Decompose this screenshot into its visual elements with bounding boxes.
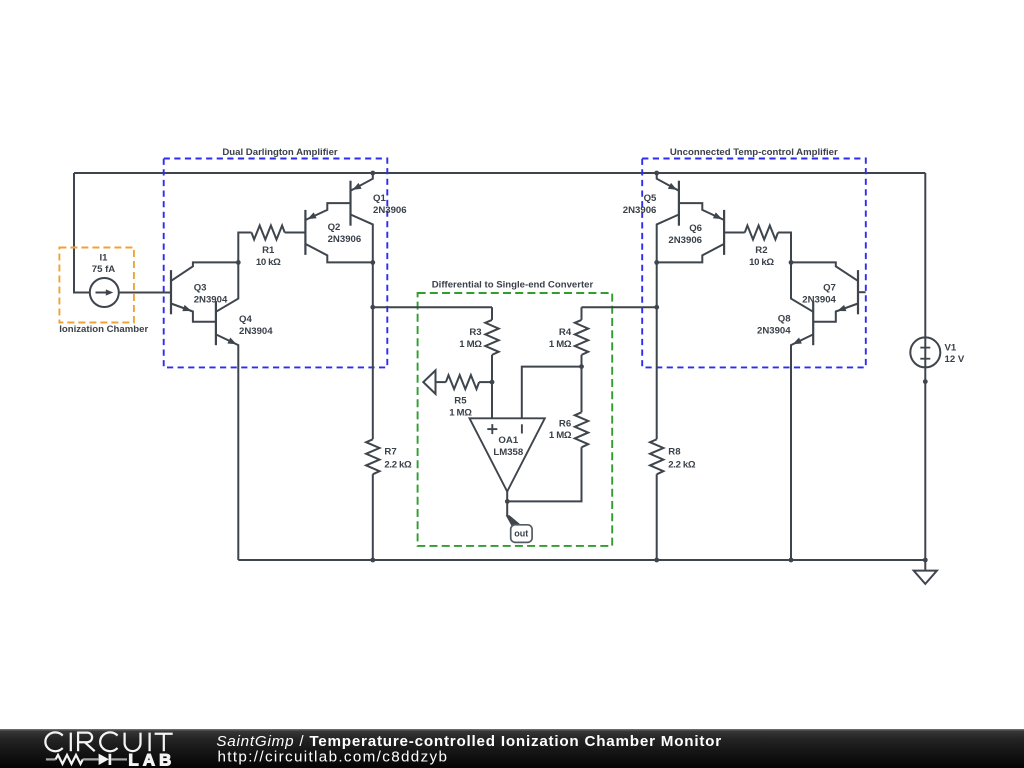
current source I1 75 fA (90, 253, 119, 307)
resistor R4 1 M (549, 307, 588, 366)
transistor Q7 base stub (858, 291, 866, 293)
transistor Q1 emitter (351, 173, 373, 191)
transistor Q7 emitter (813, 304, 858, 322)
transistor Q3 collector (171, 262, 238, 281)
transistor Q4 collector (216, 262, 238, 311)
svg-text:Ionization Chamber: Ionization Chamber (59, 324, 148, 335)
wire op-amp minus input to R4 node (522, 367, 582, 419)
svg-text:2N3904: 2N3904 (239, 326, 273, 337)
resistor R7 2.2 k (366, 439, 412, 474)
svg-text:2N3906: 2N3906 (623, 205, 657, 216)
node Q3/Q4 collectors R1 (236, 260, 241, 265)
node R4 R6 minus-input (579, 364, 584, 369)
transistor Q7 collector (791, 262, 858, 281)
transistor Q6 2N3906 bar (723, 210, 725, 255)
node Q5/Q6 collectors (654, 260, 659, 265)
transistor Q3 2N3904 bar (170, 270, 172, 314)
svg-text:SaintGimp / Temperature-contro: SaintGimp / Temperature-controlled Ioniz… (216, 733, 722, 750)
transistor Q5 emitter (657, 173, 679, 191)
node out flag (506, 501, 532, 542)
annotation box Ionization Chamber (59, 248, 148, 336)
svg-text:Q6: Q6 (689, 223, 702, 234)
wire left supply drop (74, 173, 90, 293)
svg-text:Q4: Q4 (239, 314, 252, 325)
node R3 R5 plus-input (490, 380, 495, 385)
label Q2 (328, 222, 362, 245)
svg-text:OA1: OA1 (498, 435, 518, 446)
label Q5 (623, 193, 657, 216)
label Q7 (802, 283, 836, 306)
svg-text:Unconnected Temp-control Ampli: Unconnected Temp-control Amplifier (670, 147, 838, 158)
resistor R8 2.2 k (650, 439, 696, 474)
CircuitLab logo (45, 732, 175, 768)
junction top rail right (654, 171, 659, 176)
junction Q8 ground rail (789, 558, 794, 563)
wire left node to R7 (372, 307, 374, 439)
footer attribution (216, 733, 722, 750)
label Q4 (239, 314, 273, 337)
transistor Q8 collector (791, 262, 813, 311)
svg-text:1 MΩ: 1 MΩ (449, 408, 472, 419)
junction V1 ground rail (923, 558, 928, 563)
svg-text:2N3904: 2N3904 (802, 294, 836, 305)
annotation box Differential to Single-end Converter (418, 280, 613, 546)
wire op-amp output (506, 492, 508, 502)
resistor R3 1 M (459, 307, 498, 382)
transistor Q5 2N3906 bar (678, 181, 680, 226)
junction R7 ground rail (370, 558, 375, 563)
wire Q6 collector node down (656, 262, 658, 307)
svg-text:Q8: Q8 (778, 314, 791, 325)
svg-text:I1: I1 (99, 253, 108, 264)
svg-text:R6: R6 (559, 418, 571, 429)
svg-text:1 MΩ: 1 MΩ (549, 430, 572, 441)
svg-text:2N3906: 2N3906 (328, 234, 362, 245)
svg-text:Differential to Single-end Con: Differential to Single-end Converter (432, 280, 594, 291)
wire R8 to ground rail (656, 474, 658, 560)
annotation box Unconnected Temp-control Amplifier (642, 147, 866, 368)
transistor Q7 2N3904 bar (857, 270, 859, 314)
svg-text:R2: R2 (755, 245, 767, 256)
wire right node to R8 (656, 307, 658, 439)
svg-text:R5: R5 (454, 395, 467, 406)
svg-text:R4: R4 (559, 327, 572, 338)
svg-text:V1: V1 (945, 343, 957, 354)
svg-text:Q7: Q7 (823, 283, 836, 294)
transistor Q8 2N3904 bar (812, 301, 814, 345)
junction top rail left (370, 171, 375, 176)
wire V1 to ground rail (924, 367, 926, 560)
svg-text:LM358: LM358 (493, 447, 524, 458)
wire I1 to Q3 base (119, 292, 171, 294)
svg-text:out: out (514, 529, 528, 539)
transistor Q2 collector (305, 244, 372, 263)
svg-text:http://circuitlab.com/c8ddzyb: http://circuitlab.com/c8ddzyb (218, 748, 449, 765)
op-amp OA1 LM358 (470, 418, 545, 491)
svg-text:10 kΩ: 10 kΩ (256, 257, 281, 268)
node Q1/Q2 collectors (370, 260, 375, 265)
svg-text:1 MΩ: 1 MΩ (549, 339, 572, 350)
voltage source V1 12 V (910, 337, 965, 367)
footer bar (0, 729, 1024, 768)
wire top supply rail (74, 172, 925, 174)
resistor R2 10 k (724, 226, 791, 268)
svg-text:75 fA: 75 fA (92, 264, 116, 275)
svg-text:2.2 kΩ: 2.2 kΩ (668, 459, 696, 470)
ground symbol (914, 560, 937, 584)
node Q7/Q8 collectors R2 (789, 260, 794, 265)
transistor Q8 emitter (791, 334, 813, 560)
wire R3 node to op-amp plus input (491, 382, 493, 418)
transistor Q4 2N3904 bar (215, 301, 217, 345)
wire right supply drop to V1 (924, 173, 926, 338)
transistor Q1 collector (351, 215, 373, 263)
annotation box Dual Darlington Amplifier (164, 147, 388, 368)
svg-text:Q3: Q3 (194, 283, 207, 294)
transistor Q6 emitter (679, 203, 724, 220)
transistor Q4 emitter (216, 334, 238, 560)
svg-text:R3: R3 (469, 327, 481, 338)
svg-text:10 kΩ: 10 kΩ (749, 257, 774, 268)
node op-amp output (505, 499, 510, 504)
wire R7 to ground rail (372, 474, 374, 560)
transistor Q2 2N3906 bar (304, 210, 306, 255)
resistor R6 1 M (507, 367, 588, 502)
svg-text:Dual Darlington Amplifier: Dual Darlington Amplifier (222, 147, 338, 158)
label Q1 (373, 193, 407, 216)
svg-text:R7: R7 (384, 447, 396, 458)
svg-text:2N3906: 2N3906 (668, 235, 702, 246)
wire left node to R3 (373, 306, 492, 308)
svg-text:Q2: Q2 (328, 222, 341, 233)
svg-text:Q1: Q1 (373, 193, 386, 204)
svg-text:1 MΩ: 1 MΩ (459, 339, 482, 350)
wire Q2 collector node down (372, 262, 374, 307)
junction V1 negative node (923, 379, 928, 384)
svg-text:R1: R1 (262, 245, 275, 256)
transistor Q1 2N3906 bar (349, 181, 351, 226)
transistor Q6 collector (657, 244, 724, 263)
transistor Q2 emitter (305, 203, 350, 220)
transistor Q3 emitter (171, 304, 216, 322)
svg-text:2N3906: 2N3906 (373, 205, 407, 216)
svg-text:2N3904: 2N3904 (757, 325, 791, 336)
port flag input (left arrow) (423, 370, 446, 394)
junction right node to converter (654, 305, 659, 310)
svg-text:R8: R8 (668, 447, 681, 458)
svg-text:2.2 kΩ: 2.2 kΩ (384, 459, 412, 470)
label Q8 (757, 314, 791, 337)
svg-text:LAB: LAB (128, 750, 175, 768)
resistor R5 1 M (446, 375, 492, 419)
transistor Q5 collector (657, 215, 679, 263)
junction left node to converter (370, 305, 375, 310)
junction R8 ground rail (654, 558, 659, 563)
svg-text:12 V: 12 V (945, 354, 965, 365)
footer url (218, 748, 449, 765)
wire ground rail (238, 559, 925, 561)
label Q3 (194, 283, 228, 306)
label Q6 (668, 223, 702, 246)
wire right node to R4 (582, 306, 657, 308)
svg-text:Q5: Q5 (644, 193, 657, 204)
resistor R1 10 k (238, 226, 305, 268)
svg-text:2N3904: 2N3904 (194, 294, 228, 305)
